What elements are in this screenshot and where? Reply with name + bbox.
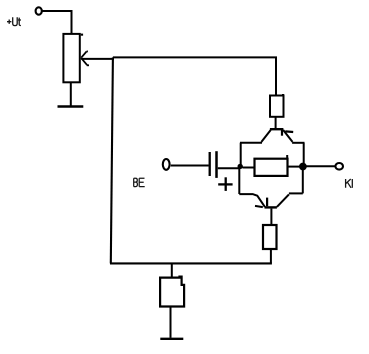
- wire left branch (long vertical): [111, 57, 113, 263]
- node A (left junction): [238, 164, 243, 169]
- wire wiper to rails (top horizontal): [81, 58, 114, 60]
- resistor R3: [255, 155, 288, 176]
- potentiometer R1 body: [63, 34, 83, 83]
- Q2 emitter arrow: [266, 198, 268, 207]
- wire node B to output terminal: [307, 165, 335, 167]
- capacitor C1 right plate: [215, 151, 218, 178]
- wire left wall upper: [240, 143, 242, 165]
- wire R2 to Q1 base: [275, 117, 277, 129]
- label + (C1 polarity): [218, 177, 232, 191]
- transistor Q2 collector (right leg): [277, 194, 289, 207]
- node B (right junction): [299, 163, 307, 171]
- resistor R4: [263, 225, 277, 249]
- terminal BE (input): [163, 159, 170, 170]
- ground (below R1): [58, 105, 84, 107]
- capacitor C1 left plate: [209, 152, 211, 176]
- wire left wall lower: [238, 168, 240, 194]
- resistor R5: [160, 277, 184, 307]
- potentiometer R1 wiper arrow: [81, 51, 89, 65]
- Q1 emitter arrow: [281, 130, 283, 136]
- transistor Q2 base bar: [265, 206, 277, 208]
- wire Q2 base to R4: [270, 209, 272, 225]
- terminal +Ut: [36, 7, 42, 14]
- label BE: [134, 178, 145, 186]
- wire bottom rail: [110, 262, 272, 264]
- wire R3 to node B: [288, 166, 300, 168]
- terminal KI: [335, 163, 343, 170]
- wire rail to R5: [171, 263, 173, 277]
- wire C1 to node A: [218, 167, 240, 169]
- label +Ut: [7, 17, 21, 25]
- wire potentiometer to ground: [70, 82, 72, 105]
- transistor Q1 base bar: [270, 128, 284, 130]
- wire BE terminal to C1: [171, 165, 209, 167]
- label KI: [346, 179, 353, 188]
- transistor Q2 emitter (left leg): [239, 194, 264, 207]
- wire R5 to ground: [170, 306, 172, 338]
- wire terminal to potentiometer top: [42, 11, 71, 34]
- wire right wall lower: [302, 169, 304, 193]
- wire node A to R3: [243, 167, 255, 169]
- wire R4 to bottom rail: [270, 249, 272, 263]
- transistor Q1 emitter (right leg): [283, 130, 292, 142]
- wire right wall upper: [303, 143, 305, 163]
- transistor Q1 collector (left leg): [261, 130, 270, 142]
- wire top rail down to R2: [275, 57, 277, 95]
- resistor R2: [270, 94, 284, 117]
- ground (below R5): [160, 338, 183, 340]
